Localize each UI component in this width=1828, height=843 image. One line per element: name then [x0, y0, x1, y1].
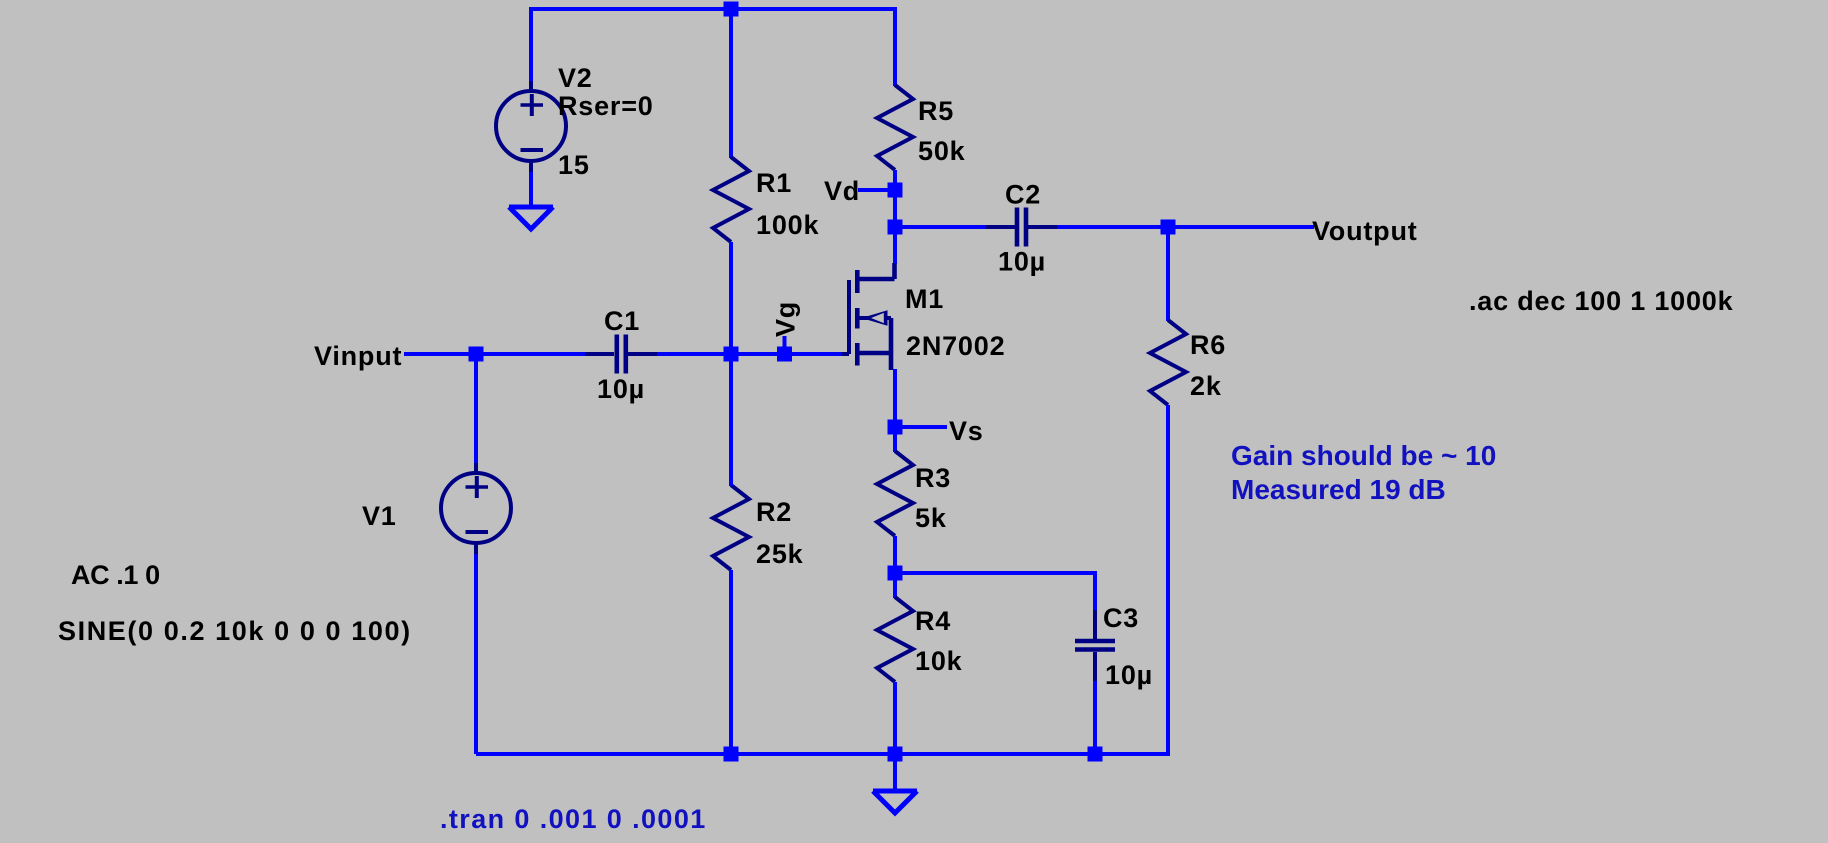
- ground at bottom center: [873, 791, 917, 813]
- wire ground stub center: [893, 754, 897, 789]
- svg-text:Vd: Vd: [824, 176, 860, 206]
- svg-text:Gain should be ~ 10: Gain should be ~ 10: [1231, 440, 1496, 471]
- label 5k: [915, 503, 947, 533]
- node junction Voutput at R6: [1161, 220, 1176, 235]
- wire R2 bottom: [729, 570, 733, 754]
- capacitor C3: [1075, 610, 1115, 681]
- wire M1 source to R3: [893, 369, 897, 452]
- svg-text:AC .1 0: AC .1 0: [71, 560, 160, 590]
- svg-text:R3: R3: [915, 463, 951, 493]
- label M1: [905, 284, 944, 314]
- label C2: [1005, 180, 1041, 210]
- svg-text:C3: C3: [1103, 603, 1139, 633]
- transistor M1: [840, 263, 895, 370]
- svg-text:5k: 5k: [915, 503, 947, 533]
- capacitor C2: [986, 208, 1057, 247]
- comment Measured 19 dB: [1231, 474, 1446, 505]
- wire V2 to ground: [529, 172, 533, 207]
- svg-text:R6: R6: [1190, 330, 1226, 360]
- label 50k: [918, 136, 966, 166]
- wire R4 bottom: [893, 682, 897, 754]
- label R4: [915, 606, 951, 636]
- svg-text:M1: M1: [905, 284, 944, 314]
- wire top rail from V2 to R5 top: [531, 9, 895, 86]
- label V1: [362, 501, 397, 531]
- label V2: [558, 63, 593, 93]
- wire C2 row left: [895, 225, 987, 229]
- label R2: [756, 497, 792, 527]
- svg-text:C2: C2: [1005, 180, 1041, 210]
- wire R3 to R4: [893, 536, 897, 598]
- voltage source V1: [441, 463, 511, 554]
- svg-text:2N7002: 2N7002: [906, 331, 1005, 361]
- label Rser=0: [558, 91, 654, 121]
- resistor R1: [713, 157, 749, 242]
- capacitor C1: [585, 335, 657, 374]
- directive .tran: [440, 804, 707, 834]
- label R6: [1190, 330, 1226, 360]
- svg-text:10k: 10k: [915, 646, 963, 676]
- label 15: [558, 150, 590, 180]
- wire R1 column from top rail to R1: [729, 9, 733, 158]
- svg-text:10µ: 10µ: [1105, 660, 1153, 690]
- svg-text:Voutput: Voutput: [1312, 216, 1418, 246]
- svg-text:Rser=0: Rser=0: [558, 91, 654, 121]
- node Vd junction: [888, 183, 903, 198]
- label Voutput: [1312, 216, 1418, 246]
- svg-text:50k: 50k: [918, 136, 966, 166]
- node Vg junction: [777, 347, 792, 362]
- svg-text:C1: C1: [604, 306, 640, 336]
- label AC .1 0: [71, 560, 160, 590]
- label Vg rotated: [771, 301, 801, 337]
- label R3: [915, 463, 951, 493]
- resistor R3: [877, 451, 913, 536]
- label R1: [756, 168, 792, 198]
- wire R2 top: [729, 354, 733, 486]
- wire R6 bottom and bottom rail: [476, 405, 1168, 754]
- wire Vs label stub: [895, 425, 947, 429]
- wire C3 bottom: [1093, 681, 1097, 754]
- label 10u of C2: [998, 247, 1046, 277]
- svg-text:R4: R4: [915, 606, 951, 636]
- directive .ac dec 100 1 1000k: [1469, 286, 1734, 316]
- wire C2 to Voutput: [1057, 225, 1314, 229]
- wire Vd label stub: [858, 188, 895, 192]
- svg-text:R5: R5: [918, 96, 954, 126]
- resistor R2: [713, 485, 749, 570]
- svg-text:R2: R2: [756, 497, 792, 527]
- node junction bottom rail C3: [1088, 747, 1103, 762]
- svg-text:.tran 0 .001 0 .0001: .tran 0 .001 0 .0001: [440, 804, 707, 834]
- node junction top rail at R1 column: [724, 2, 739, 17]
- label Vinput: [314, 341, 402, 371]
- label C3: [1103, 603, 1139, 633]
- svg-text:Measured 19 dB: Measured 19 dB: [1231, 474, 1446, 505]
- label SINE: [58, 616, 412, 646]
- svg-text:V2: V2: [558, 63, 593, 93]
- label 100k: [756, 210, 819, 240]
- wire R5 bottom through Vd node to M1 drain: [893, 170, 897, 264]
- resistor R5: [877, 85, 913, 170]
- label 25k: [756, 539, 804, 569]
- wire V1 column top: [474, 354, 478, 464]
- svg-text:25k: 25k: [756, 539, 804, 569]
- resistor R4: [877, 597, 913, 682]
- svg-text:R1: R1: [756, 168, 792, 198]
- wire R1 bottom to Vinput row: [729, 242, 733, 354]
- node junction drain to C2: [888, 220, 903, 235]
- ground below V2: [509, 207, 553, 229]
- node Vs junction: [888, 420, 903, 435]
- label 10k: [915, 646, 963, 676]
- label 10u of C3: [1105, 660, 1153, 690]
- label C1: [604, 306, 640, 336]
- label R5: [918, 96, 954, 126]
- svg-text:V1: V1: [362, 501, 397, 531]
- svg-text:Vs: Vs: [949, 416, 984, 446]
- voltage source V2: [496, 81, 566, 172]
- svg-text:10µ: 10µ: [998, 247, 1046, 277]
- label Vs: [949, 416, 984, 446]
- svg-text:10µ: 10µ: [597, 374, 645, 404]
- svg-text:100k: 100k: [756, 210, 819, 240]
- label 10u of C1: [597, 374, 645, 404]
- svg-text:15: 15: [558, 150, 590, 180]
- svg-text:SINE(0 0.2 10k 0 0 0 100): SINE(0 0.2 10k 0 0 0 100): [58, 616, 412, 646]
- node junction Vinput at R1 column: [724, 347, 739, 362]
- resistor R6: [1150, 320, 1186, 405]
- wire Vinput row mid to gate: [657, 352, 842, 356]
- wire V1 column bottom: [474, 554, 478, 754]
- label 2N7002: [906, 331, 1005, 361]
- label Vd: [824, 176, 860, 206]
- node junction Vinput at V1: [469, 347, 484, 362]
- wire Vinput row left: [404, 352, 586, 356]
- wire junction to C3 top: [895, 573, 1095, 611]
- svg-text:Vinput: Vinput: [314, 341, 402, 371]
- wire R6 column top: [1166, 227, 1170, 321]
- node junction R3 R4 C3: [888, 566, 903, 581]
- label 2k: [1190, 371, 1222, 401]
- node junction bottom rail R2: [724, 747, 739, 762]
- comment Gain should be ~ 10: [1231, 440, 1496, 471]
- svg-text:.ac dec 100 1 1000k: .ac dec 100 1 1000k: [1469, 286, 1734, 316]
- svg-text:2k: 2k: [1190, 371, 1222, 401]
- node junction bottom rail M1: [888, 747, 903, 762]
- wire Vg label stub: [783, 336, 787, 354]
- svg-text:Vg: Vg: [771, 301, 801, 337]
